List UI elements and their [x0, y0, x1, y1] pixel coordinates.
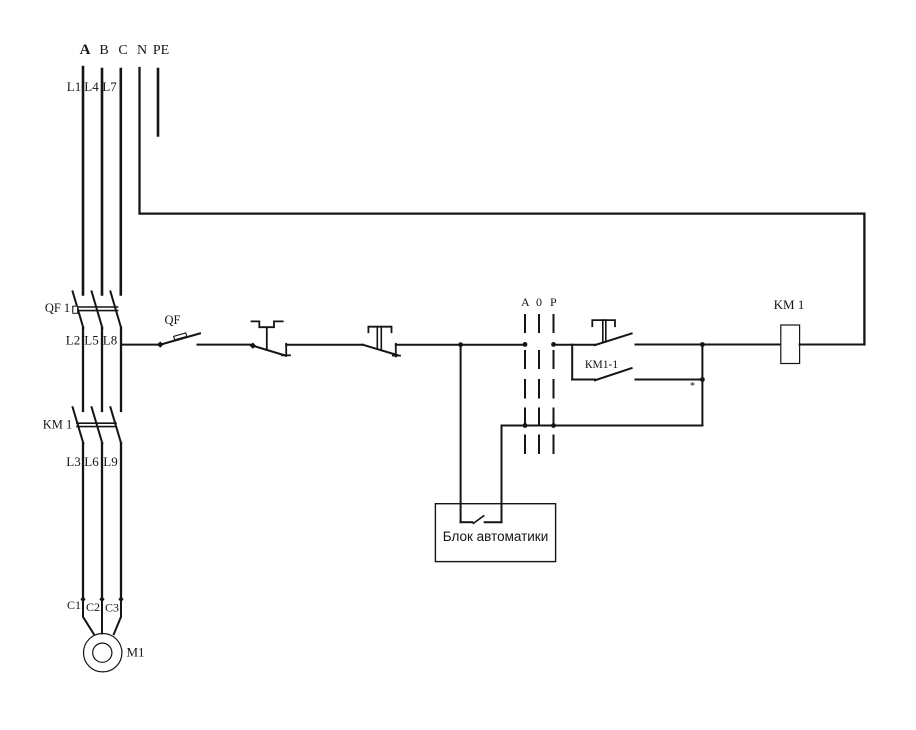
breaker QF1 pole 1 blade: [73, 291, 84, 327]
svg-text:C3: C3: [105, 601, 119, 615]
breaker QF1 pole 3 blade: [110, 291, 121, 327]
connector dashed line A: [524, 315, 526, 453]
motor M1 outer circle: [84, 634, 122, 672]
svg-text:QF: QF: [165, 313, 181, 327]
node C1 marker: [80, 596, 85, 602]
contact KM1-1 blade: [595, 368, 632, 380]
wire L6 segment: [101, 443, 103, 599]
contactor KM1 linkage bar: [77, 423, 116, 426]
svg-text:0: 0: [536, 295, 542, 309]
wire phase A (L1): [82, 67, 85, 295]
coil KM1 body: [781, 325, 800, 364]
motor lead 3: [114, 599, 121, 634]
wire after SB3: [636, 344, 703, 346]
svg-text:L3: L3: [66, 454, 80, 469]
wire L8 segment: [120, 328, 122, 411]
wire control tap from L8: [121, 344, 159, 346]
switch QF body box: [174, 333, 187, 340]
wire N : down then across top to right side: [140, 68, 865, 345]
wire vertical right collector: [701, 345, 703, 426]
wire bottom return line: [502, 425, 703, 427]
start button SB2 head: [368, 327, 391, 333]
svg-text:L5: L5: [84, 333, 98, 348]
connector dashed line P: [553, 315, 555, 453]
svg-text:L6: L6: [84, 454, 99, 469]
contactor KM1 pole 3 blade: [110, 407, 121, 443]
junction dot at connector pin P: [551, 342, 556, 347]
start button SB2 blade: [363, 345, 398, 355]
svg-text:P: P: [550, 295, 557, 309]
junction dot bottom at A: [523, 423, 528, 428]
stop button SB1 stem: [266, 327, 268, 350]
stop button SB1 blade: [253, 346, 284, 356]
svg-text:L2: L2: [66, 333, 80, 348]
junction dot bottom at P: [551, 423, 556, 428]
wire after QF: [198, 344, 253, 346]
wire phase B (L4): [101, 69, 104, 295]
svg-text:L1: L1: [67, 79, 81, 94]
breaker QF1 linkage bar: [73, 307, 118, 311]
svg-text:KM 1: KM 1: [43, 418, 73, 432]
svg-text:A: A: [80, 42, 91, 58]
svg-text:M1: M1: [126, 645, 144, 660]
breaker QF1 latch box: [73, 306, 78, 313]
svg-text:A: A: [521, 295, 530, 309]
connector dashed line 0: [538, 315, 540, 453]
node C3 marker: [118, 596, 123, 602]
svg-text:N: N: [137, 43, 147, 58]
wire L9 segment: [120, 443, 122, 599]
start button SB2 terminal bar: [395, 344, 397, 357]
automation block internal contact blade: [473, 516, 483, 524]
wire branch down to KM1-1: [571, 345, 573, 380]
wire between buttons: [286, 344, 363, 346]
wire L2 segment: [82, 328, 84, 411]
panel button SB3 blade: [595, 334, 632, 346]
stop button SB1 pivot dot: [250, 343, 256, 349]
automation block internal left stub: [461, 521, 473, 523]
svg-text:*: *: [690, 381, 695, 392]
automation block box: [435, 504, 555, 562]
breaker QF1 pole 2 blade: [92, 291, 103, 327]
contactor KM1 pole 2 blade: [92, 407, 103, 443]
wire PE stub: [157, 69, 160, 136]
svg-text:L9: L9: [103, 454, 117, 469]
panel button SB3 stem (double): [603, 320, 606, 343]
motor lead 1: [83, 599, 94, 634]
wire to junction: [396, 344, 461, 346]
motor M1 inner circle: [93, 643, 112, 662]
svg-text:C2: C2: [86, 600, 100, 614]
contact KM1-1 left wire: [572, 379, 595, 381]
wire phase C (L7): [120, 69, 123, 295]
contactor KM1 pole 1 blade: [73, 407, 84, 443]
wire coil to N riser: [800, 344, 865, 346]
wire to connector A: [461, 344, 525, 346]
wire L5 segment: [101, 328, 103, 411]
svg-text:PE: PE: [153, 43, 169, 58]
svg-text:КМ1-1: КМ1-1: [585, 359, 618, 371]
panel button SB3 head: [592, 320, 615, 326]
wire from P to panel button: [554, 344, 595, 346]
wire to coil KM1: [702, 344, 780, 346]
svg-text:L7: L7: [102, 79, 117, 94]
svg-text:C1: C1: [67, 598, 81, 612]
motor lead 2: [101, 599, 103, 633]
svg-text:L8: L8: [103, 333, 117, 348]
contact KM1-1 right wire: [636, 379, 703, 381]
stop button SB1 head: [252, 321, 283, 327]
stop button SB1 blade tail: [282, 354, 290, 356]
svg-text:C: C: [118, 43, 127, 58]
svg-text:B: B: [99, 43, 108, 58]
junction dot main line right: [700, 342, 705, 347]
switch QF pivot dot: [157, 341, 163, 347]
wire L3 segment: [82, 443, 84, 599]
switch QF blade: [161, 333, 201, 344]
junction dot KM1-1 right: [700, 377, 705, 382]
stop button SB1 terminal bar: [285, 344, 287, 356]
junction dot to automation block: [458, 342, 463, 347]
svg-text:KM 1: KM 1: [774, 297, 805, 312]
start button SB2 stem (double): [377, 327, 381, 351]
svg-text:QF 1: QF 1: [45, 301, 70, 315]
svg-text:L4: L4: [84, 79, 99, 94]
start button SB2 blade tail: [393, 355, 400, 357]
svg-text:Блок автоматики: Блок автоматики: [443, 529, 549, 544]
automation block internal right stub: [485, 521, 502, 523]
node C2 marker: [99, 596, 104, 602]
wire down to automation block: [460, 345, 462, 523]
junction dot at connector pin A: [523, 342, 528, 347]
wire return down into automation block: [501, 426, 503, 523]
